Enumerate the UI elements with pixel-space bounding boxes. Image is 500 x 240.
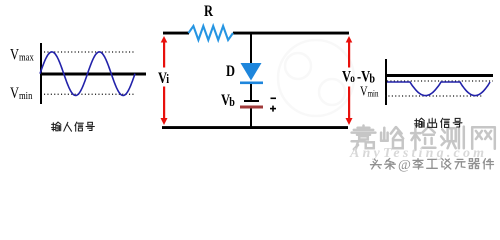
- svg-text:Vb: Vb: [221, 92, 235, 110]
- output plot zero axis: [385, 74, 493, 77]
- Vmax dotted level line: [44, 51, 134, 53]
- label 输出信号 (output signal): [414, 118, 424, 127]
- input sine waveform: [40, 52, 135, 96]
- resistor R: [189, 26, 234, 40]
- output waveform: [387, 82, 490, 96]
- -Vb dotted level line: [387, 80, 493, 82]
- battery polarity minus: [271, 98, 277, 100]
- battery Vb top plate: [244, 100, 259, 102]
- svg-text:@: @: [398, 158, 411, 173]
- svg-text:R: R: [204, 3, 214, 21]
- output plot vertical axis: [385, 59, 387, 105]
- wire bottom: [162, 126, 348, 129]
- svg-text:D: D: [226, 63, 235, 81]
- wire top: [163, 32, 189, 35]
- watermark faint circle logo: [278, 40, 354, 116]
- label 输入信号 (input signal): [51, 122, 61, 131]
- wire: battery to bottom: [250, 109, 252, 128]
- wire: diode to battery: [250, 84, 252, 100]
- big gray watermark 嘉峪检测网: [352, 126, 376, 150]
- Vi measurement arrow: [161, 36, 168, 125]
- input plot zero axis: [40, 73, 146, 76]
- svg-text:Vi: Vi: [158, 70, 170, 88]
- wire: diode branch upper: [250, 34, 252, 64]
- Vmin dotted level line: [44, 93, 134, 95]
- battery polarity plus: [270, 106, 276, 112]
- battery Vb bottom plate: [240, 106, 263, 109]
- diode D: [240, 63, 263, 84]
- Vmin dotted level line (output): [385, 95, 482, 97]
- input plot vertical axis: [40, 43, 42, 104]
- watermark byline 头条@李工谈元器件 (embossed): [372, 160, 383, 170]
- Vo measurement arrow: [346, 36, 353, 125]
